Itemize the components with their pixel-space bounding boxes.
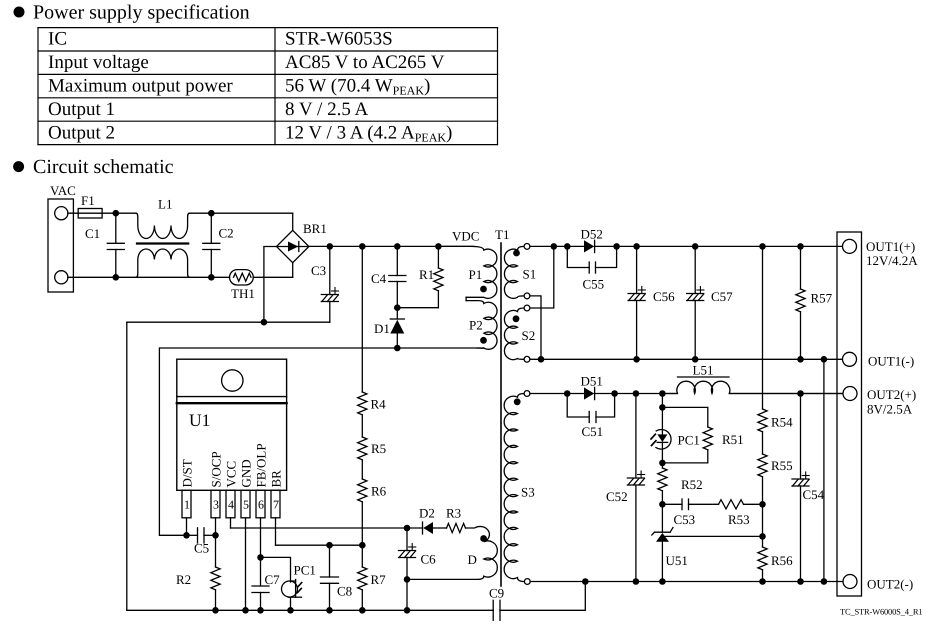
U1 pin labels [180, 443, 284, 487]
svg-text:GND: GND [239, 459, 254, 487]
resistor R53 [719, 500, 766, 527]
diode D52 [581, 227, 603, 253]
connector output [837, 232, 862, 596]
transformer T1 core [495, 227, 509, 586]
IC U1 (STR-W6053S) [177, 359, 287, 490]
capacitor C57 (electrolytic) [687, 246, 733, 359]
wire: S1 bottom to S2 bottom tie [530, 296, 541, 359]
capacitor C4 [371, 246, 406, 307]
svg-text:5: 5 [243, 498, 249, 512]
capacitor C53 [662, 499, 718, 527]
svg-text:F1: F1 [81, 193, 95, 208]
capacitor C54 (electrolytic) [792, 394, 825, 582]
svg-text:Circuit schematic: Circuit schematic [33, 156, 174, 178]
svg-text:C9: C9 [489, 586, 504, 601]
transformer winding P2 [466, 297, 497, 349]
svg-text:R5: R5 [371, 441, 386, 456]
svg-text:4: 4 [228, 498, 234, 512]
inductor L51 [662, 363, 843, 394]
svg-text:D/ST: D/ST [180, 459, 195, 487]
wire: S2 top to 12V node tie [530, 246, 554, 308]
wire: 12V rectified bus [530, 243, 843, 250]
svg-text:TH1: TH1 [231, 286, 255, 301]
svg-text:C8: C8 [337, 584, 352, 599]
transformer winding S2 [504, 305, 535, 362]
svg-text:OUT1(-): OUT1(-) [868, 354, 914, 369]
svg-text:Output 2: Output 2 [48, 122, 115, 143]
diode D2 [407, 506, 447, 535]
svg-text:STR-W6053S: STR-W6053S [285, 29, 393, 50]
U1 pin 7 [271, 490, 280, 545]
bridge rectifier BR1 [277, 221, 327, 263]
common-mode choke L1 [136, 197, 190, 278]
svg-text:S3: S3 [521, 485, 535, 500]
wire: secondary ground rail (OUT2 negative) [530, 578, 843, 585]
svg-text:U1: U1 [189, 410, 210, 430]
svg-text:P2: P2 [469, 318, 483, 333]
resistor R1 [394, 246, 443, 311]
resistor R5 [358, 415, 386, 460]
svg-text:Power supply specification: Power supply specification [33, 1, 250, 23]
svg-text:C5: C5 [194, 541, 209, 556]
resistor R57 [796, 246, 833, 359]
capacitor C56 (electrolytic) [628, 246, 675, 359]
table grid [38, 28, 498, 145]
shunt regulator U51 [652, 504, 688, 581]
wire: AC line 2 (bottom) [68, 263, 293, 281]
wire: VCC line (pin4 to C6/D2) [231, 525, 411, 532]
capacitor C9 (Y-cap) [489, 582, 585, 621]
transformer winding P1 [438, 246, 496, 298]
resistor R56 [758, 536, 793, 581]
svg-text:R7: R7 [371, 572, 387, 587]
node OUT2(+) [867, 387, 916, 417]
svg-text:R54: R54 [771, 415, 793, 430]
svg-text:R53: R53 [728, 512, 750, 527]
svg-text:R1: R1 [419, 267, 434, 282]
svg-text:R6: R6 [371, 484, 387, 499]
svg-text:P1: P1 [469, 267, 483, 282]
svg-text:C51: C51 [582, 424, 604, 439]
svg-text:D51: D51 [581, 374, 603, 389]
svg-text:56 W (70.4 WPEAK): 56 W (70.4 WPEAK) [285, 76, 430, 98]
svg-text:R2: R2 [176, 572, 191, 587]
svg-text:8V/2.5A: 8V/2.5A [867, 402, 913, 417]
svg-text:C4: C4 [371, 271, 387, 286]
resistor R6 [358, 460, 387, 545]
svg-text:OUT1(+): OUT1(+) [866, 239, 915, 254]
wire: left ground runner [126, 322, 128, 610]
svg-text:S1: S1 [523, 267, 537, 282]
svg-text:12V/4.2A: 12V/4.2A [866, 253, 918, 268]
svg-text:R56: R56 [771, 553, 793, 568]
resistor R7 [358, 545, 386, 610]
svg-text:R51: R51 [722, 432, 744, 447]
U1 pin 1 [182, 490, 191, 535]
svg-text:C3: C3 [311, 263, 326, 278]
resistor R3 [446, 506, 465, 533]
svg-text:6: 6 [258, 498, 264, 512]
svg-text:L51: L51 [693, 363, 714, 378]
svg-text:VDC: VDC [452, 229, 479, 244]
svg-text:R55: R55 [771, 458, 793, 473]
svg-text:TC_STR-W6000S_4_R1: TC_STR-W6000S_4_R1 [840, 607, 922, 617]
capacitor C6 (electrolytic) [399, 528, 437, 610]
capacitor C51 [567, 394, 614, 440]
capacitor C52 (electrolytic) [606, 394, 645, 582]
svg-text:PC1: PC1 [678, 433, 700, 448]
svg-text:C57: C57 [711, 289, 733, 304]
svg-text:12 V / 3 A (4.2 APEAK): 12 V / 3 A (4.2 APEAK) [285, 122, 452, 144]
heading bullet 1 [14, 7, 25, 18]
wire: BR line (pin7) [276, 542, 366, 549]
svg-text:C6: C6 [421, 552, 437, 567]
capacitor C8 [321, 545, 353, 610]
wire: 8V rail (S3 top / D51 line) [530, 390, 843, 397]
fuse F1 [78, 193, 102, 218]
capacitor C2 [203, 213, 234, 277]
svg-text:R4: R4 [371, 397, 387, 412]
svg-text:C2: C2 [219, 226, 234, 241]
svg-text:C53: C53 [674, 512, 696, 527]
U1 pin 6 [256, 490, 265, 557]
U1 pin 5 [241, 490, 250, 610]
heading bullet 2 [13, 161, 24, 172]
svg-text:8 V / 2.5 A: 8 V / 2.5 A [285, 99, 369, 120]
wire: OUT1(-) to OUT2(-) tie [823, 359, 825, 581]
wire: FB node (pin6) [257, 554, 290, 582]
connector VAC [48, 183, 76, 292]
svg-text:U51: U51 [666, 553, 688, 568]
svg-text:IC: IC [48, 29, 67, 50]
U1 pin 4 [226, 490, 235, 528]
wire: AC line 1 (top) [68, 210, 293, 231]
capacitor C1 [85, 213, 124, 277]
resistor R4 [358, 246, 386, 414]
svg-text:C56: C56 [653, 289, 675, 304]
optocoupler PC1 LED [651, 394, 700, 467]
svg-text:S2: S2 [522, 328, 536, 343]
svg-text:C52: C52 [606, 489, 628, 504]
svg-text:Input voltage: Input voltage [48, 52, 149, 73]
svg-text:C7: C7 [265, 572, 281, 587]
resistor R2 [176, 535, 220, 610]
wire: VDC bus [309, 243, 474, 250]
svg-text:C55: C55 [583, 277, 605, 292]
svg-text:S/OCP: S/OCP [209, 451, 224, 487]
svg-text:OUT2(-): OUT2(-) [867, 577, 913, 592]
capacitor C5 [187, 528, 219, 556]
svg-text:FB/OLP: FB/OLP [254, 443, 269, 487]
svg-text:PC1: PC1 [294, 563, 316, 578]
transformer winding S1 [504, 244, 536, 299]
svg-text:R57: R57 [811, 291, 833, 306]
svg-text:3: 3 [213, 498, 219, 512]
wire: OUT1 negative rail [530, 356, 843, 363]
capacitor C55 [567, 246, 616, 291]
wire: DC negative return [127, 247, 330, 326]
capacitor C7 [252, 557, 280, 610]
svg-text:BR: BR [269, 470, 284, 488]
svg-text:D1: D1 [374, 321, 390, 336]
svg-text:D: D [468, 552, 477, 567]
svg-text:D52: D52 [581, 227, 603, 242]
svg-text:T1: T1 [495, 227, 509, 242]
optocoupler PC1 phototransistor [282, 563, 316, 611]
capacitor C3 (electrolytic) [311, 246, 339, 322]
wire: primary ground rail [127, 607, 493, 614]
svg-text:AC85 V to AC265 V: AC85 V to AC265 V [285, 52, 445, 73]
svg-text:7: 7 [273, 498, 279, 512]
svg-text:Maximum output power: Maximum output power [48, 76, 233, 97]
svg-text:C1: C1 [85, 226, 100, 241]
svg-text:BR1: BR1 [303, 221, 327, 236]
resistor R54 [758, 246, 793, 431]
wire: drain node (P2 to U1 pin1) [159, 345, 483, 539]
svg-text:L1: L1 [158, 197, 172, 212]
svg-text:R3: R3 [446, 506, 461, 521]
wire: U51 reference [665, 533, 766, 540]
svg-text:C54: C54 [803, 487, 825, 502]
transformer winding S3 [504, 391, 535, 585]
diode D1 [374, 308, 404, 348]
svg-text:Output 1: Output 1 [48, 99, 115, 120]
svg-text:VAC: VAC [50, 183, 76, 198]
thermistor TH1 [230, 270, 255, 301]
resistor R51 [662, 407, 743, 463]
U1 pin 3 [211, 490, 220, 535]
resistor R55 [758, 432, 793, 537]
svg-text:1: 1 [184, 498, 190, 512]
transformer winding D (aux) [407, 526, 497, 579]
svg-text:D2: D2 [419, 506, 435, 521]
table text [48, 29, 452, 145]
svg-text:OUT2(+): OUT2(+) [867, 387, 916, 402]
resistor R52 [658, 463, 703, 508]
svg-text:VCC: VCC [224, 461, 239, 488]
svg-text:R52: R52 [681, 477, 703, 492]
node OUT1(+) [866, 239, 918, 268]
diode D51 [581, 374, 603, 400]
